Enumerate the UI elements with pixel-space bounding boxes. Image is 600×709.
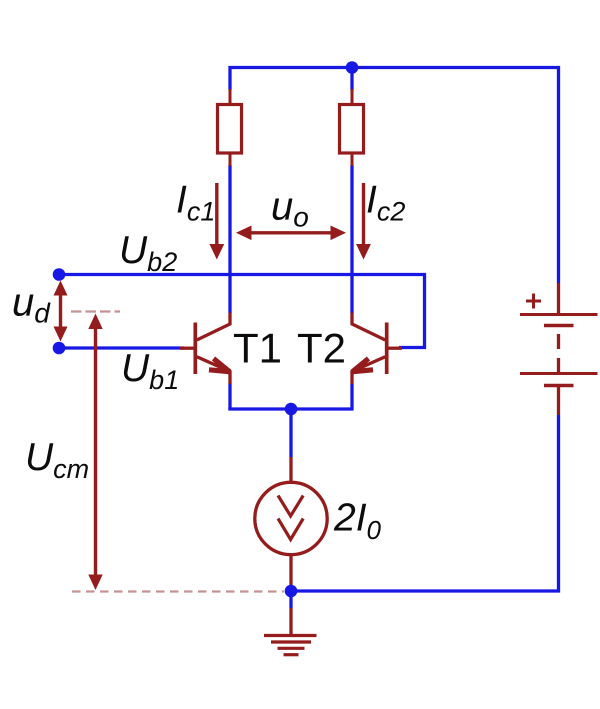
wire U_b2 net — [57, 275, 425, 348]
resistor R_C1 — [218, 105, 242, 154]
wire bottom rail to battery — [291, 415, 559, 591]
node ground junction — [285, 585, 298, 598]
wire ground stub below node — [289, 591, 292, 608]
node top rail junction — [346, 61, 359, 74]
wire emitter bus — [228, 407, 353, 410]
wire T1 emitter drop — [228, 384, 231, 410]
node emitter junction — [285, 403, 298, 416]
ground — [264, 636, 317, 655]
wire right collector top stub — [350, 68, 353, 91]
arrow u_o (double headed) — [236, 226, 346, 241]
transistor T1 — [180, 313, 230, 385]
battery — [520, 315, 598, 416]
wire tail to current source — [289, 409, 292, 457]
wire left collector — [228, 165, 231, 313]
ground lead — [289, 608, 292, 636]
node U_b2 input — [53, 268, 66, 281]
dashed reference line (u_d level) — [71, 310, 120, 312]
arrow I_c1 — [209, 183, 224, 260]
arrow u_d (double headed vertical) — [54, 281, 68, 342]
svg-text:T1: T1 — [233, 325, 282, 372]
node U_b1 input — [53, 342, 66, 355]
dashed reference line (ground level) — [72, 590, 284, 592]
resistor R_C2 leads — [351, 89, 354, 166]
battery lead top — [557, 283, 560, 313]
arrow U_cm (double headed vertical) — [88, 314, 102, 591]
wire T2 emitter drop — [350, 384, 353, 410]
current source 2I0 leads — [289, 457, 292, 585]
wire U_b1 net — [57, 346, 184, 349]
resistor R_C2 — [340, 105, 364, 154]
wire right collector — [350, 165, 353, 313]
svg-text:T2: T2 — [297, 325, 346, 372]
wire top rail and right drop — [230, 68, 559, 284]
transistor T2 — [352, 313, 402, 385]
resistor R_C1 leads — [229, 89, 232, 166]
arrow I_c2 — [356, 183, 371, 260]
current source 2I0 — [255, 482, 327, 554]
battery plus sign — [526, 294, 541, 309]
